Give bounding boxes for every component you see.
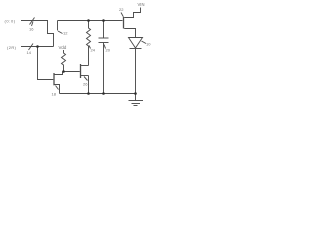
svg-text:(2R): (2R) <box>7 45 17 50</box>
svg-text:10: 10 <box>146 42 151 47</box>
svg-text:22: 22 <box>119 7 124 12</box>
svg-text:26: 26 <box>83 82 88 87</box>
svg-text:Vdd: Vdd <box>59 45 67 50</box>
svg-text:12: 12 <box>63 31 68 36</box>
svg-text:(0:0): (0:0) <box>5 19 16 24</box>
svg-text:14: 14 <box>27 50 32 55</box>
svg-text:20: 20 <box>106 48 111 53</box>
svg-text:VIN: VIN <box>138 2 145 7</box>
svg-text:18: 18 <box>52 92 57 97</box>
svg-text:16: 16 <box>29 27 34 32</box>
svg-text:24: 24 <box>91 48 96 53</box>
